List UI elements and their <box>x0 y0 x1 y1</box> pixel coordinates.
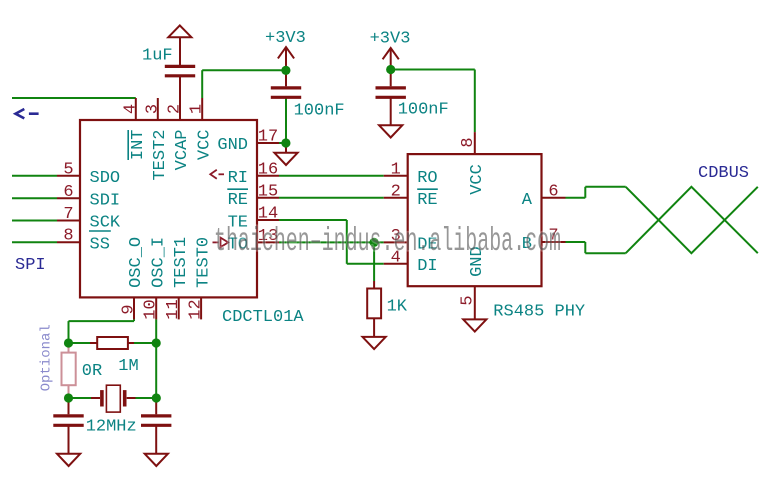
svg-text:thaichen–indus.en.alibaba.com: thaichen–indus.en.alibaba.com <box>214 223 561 260</box>
svg-text:100nF: 100nF <box>294 102 345 121</box>
svg-text:VCC: VCC <box>468 164 487 195</box>
svg-text:2: 2 <box>391 182 401 201</box>
svg-text:RS485 PHY: RS485 PHY <box>493 303 585 322</box>
svg-text:SPI: SPI <box>15 256 46 275</box>
svg-text:Optional: Optional <box>39 324 55 391</box>
svg-text:1: 1 <box>188 104 207 114</box>
svg-text:1M: 1M <box>118 357 138 376</box>
svg-text:SDO: SDO <box>90 169 121 188</box>
svg-text:5: 5 <box>63 160 73 179</box>
svg-text:16: 16 <box>258 160 278 179</box>
svg-text:+3V3: +3V3 <box>370 30 411 49</box>
svg-text:INT: INT <box>129 130 148 161</box>
svg-text:OSC_I: OSC_I <box>149 237 168 288</box>
svg-text:0R: 0R <box>82 362 102 381</box>
svg-text:TEST2: TEST2 <box>151 130 170 181</box>
svg-text:TEST1: TEST1 <box>172 237 191 288</box>
svg-text:VCAP: VCAP <box>173 130 192 171</box>
svg-text:RE: RE <box>228 191 248 210</box>
svg-text:+3V3: +3V3 <box>265 29 306 48</box>
svg-text:GND: GND <box>217 136 248 155</box>
svg-text:1: 1 <box>391 160 401 179</box>
svg-text:OSC_O: OSC_O <box>127 237 146 288</box>
svg-text:SDI: SDI <box>90 191 121 210</box>
svg-text:VCC: VCC <box>195 130 214 161</box>
svg-text:RO: RO <box>417 169 437 188</box>
svg-text:SS: SS <box>90 236 110 255</box>
svg-text:8: 8 <box>459 137 478 147</box>
svg-text:12MHz: 12MHz <box>86 418 137 437</box>
svg-text:11: 11 <box>164 299 183 319</box>
svg-text:6: 6 <box>548 182 558 201</box>
svg-text:SCK: SCK <box>90 214 121 233</box>
svg-text:3: 3 <box>143 104 162 114</box>
svg-text:4: 4 <box>121 104 140 114</box>
svg-text:CDBUS: CDBUS <box>698 164 749 183</box>
svg-text:CDCTL01A: CDCTL01A <box>222 308 304 327</box>
svg-text:1uF: 1uF <box>142 47 173 66</box>
svg-text:17: 17 <box>258 128 278 147</box>
svg-text:1K: 1K <box>387 298 408 317</box>
svg-text:15: 15 <box>258 182 278 201</box>
svg-text:9: 9 <box>120 304 139 314</box>
svg-text:14: 14 <box>258 205 278 224</box>
svg-text:5: 5 <box>459 295 478 305</box>
svg-text:8: 8 <box>63 227 73 246</box>
svg-text:12: 12 <box>187 299 206 319</box>
svg-text:7: 7 <box>63 205 73 224</box>
svg-text:10: 10 <box>142 299 161 319</box>
svg-text:RE: RE <box>417 191 437 210</box>
svg-text:6: 6 <box>63 183 73 202</box>
svg-text:A: A <box>522 191 533 210</box>
svg-text:100nF: 100nF <box>398 101 449 120</box>
svg-text:2: 2 <box>166 104 185 114</box>
svg-text:TEST0: TEST0 <box>194 237 213 288</box>
svg-text:RI: RI <box>228 169 248 188</box>
